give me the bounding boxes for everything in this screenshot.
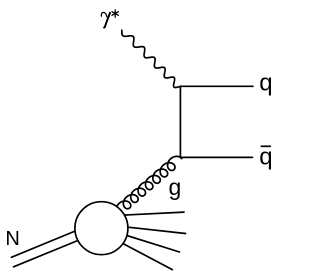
gluon coil g: [116, 156, 182, 212]
nucleon blob: [75, 202, 128, 255]
photon gamma* wavy line: [122, 30, 181, 87]
internal quark propagator (vertical): [179, 86, 181, 157]
antiquark line qbar: [180, 156, 252, 158]
qbar overbar: [261, 145, 271, 147]
svg-text:N: N: [5, 228, 19, 250]
nucleon double line upper: [11, 230, 78, 257]
label gamma (drawn glyph): [101, 12, 110, 27]
svg-text:q: q: [259, 69, 272, 96]
hadron fan line 4: [117, 240, 172, 269]
hadron fan line 1: [121, 212, 184, 215]
label gamma asterisk (6-ray star): [112, 10, 118, 17]
quark line q: [180, 85, 253, 87]
svg-text:q: q: [259, 143, 272, 170]
nucleon double line lower: [14, 240, 80, 267]
hadron fan line 2: [122, 227, 186, 234]
hadron fan line 3: [121, 234, 180, 252]
svg-text:g: g: [169, 174, 182, 200]
